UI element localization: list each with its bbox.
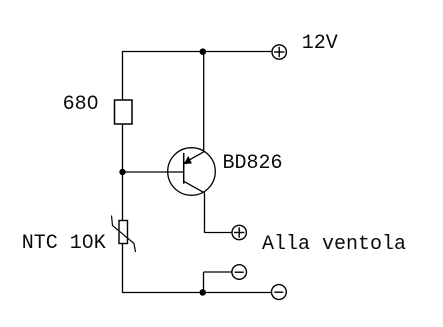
wire: left rail upper segment: [122, 51, 124, 100]
svg-text:NTC 10K: NTC 10K: [22, 232, 106, 255]
transistor emitter arrowhead (PNP, points to base): [184, 156, 192, 164]
transistor emitter diagonal: [184, 152, 204, 163]
svg-text:BD826: BD826: [223, 152, 283, 175]
wire: left rail middle segment: [122, 124, 124, 221]
transistor Q1 BD826 circle: [168, 148, 216, 196]
wire: collector lead down: [204, 193, 206, 232]
junction: bottom rail / minus branch: [199, 289, 206, 296]
wire: bottom ground rail: [123, 292, 273, 294]
resistor R1 680: [115, 100, 133, 124]
transistor collector diagonal: [184, 181, 205, 193]
wire: collector to fan + terminal: [204, 232, 232, 234]
svg-text:680: 680: [63, 93, 99, 116]
wire: minus branch horizontal: [204, 271, 233, 273]
wire: +12V top rail: [123, 51, 272, 53]
wire: emitter lead from top rail: [203, 52, 205, 153]
transistor base bar: [183, 153, 185, 184]
terminal fan - circle: [232, 265, 247, 280]
junction: top rail / collector node: [200, 48, 207, 55]
terminal supply - circle: [272, 285, 287, 300]
svg-text:12V: 12V: [302, 32, 338, 55]
wire: minus branch vertical: [203, 272, 205, 293]
terminal +12V circle: [272, 45, 286, 59]
svg-text:Alla ventola: Alla ventola: [262, 233, 406, 256]
thermistor NTC body: [119, 221, 128, 244]
wire: left rail lower segment: [122, 244, 124, 294]
junction: base node: [119, 169, 125, 175]
terminal fan + circle: [232, 225, 246, 239]
wire: base wire: [123, 171, 184, 173]
thermistor NTC diagonal stroke: [112, 216, 136, 253]
